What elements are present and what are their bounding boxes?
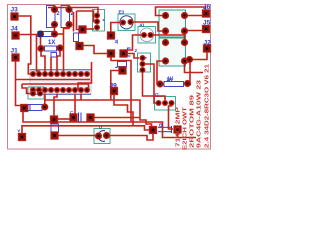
- board background: [0, 0, 216, 155]
- transistor Q5 outline: [138, 53, 151, 72]
- IC U1 pads row1: [30, 71, 89, 76]
- wire R2 bottom to X1: [54, 25, 56, 35]
- wire J2 to via: [190, 53, 207, 60]
- relay K2 outline: [159, 38, 186, 66]
- resistor R2 pads: [51, 6, 57, 12]
- LED D1 pads: [95, 133, 101, 139]
- wire C4 right to bus: [94, 117, 141, 119]
- wire U1 row2 to C4: [74, 94, 76, 116]
- svg-text:J6: J6: [203, 4, 211, 11]
- wire Q6 left down to C2: [126, 35, 144, 52]
- relay K2 pads: [162, 39, 168, 45]
- wire top bus to Q1: [48, 8, 98, 14]
- transistor Q1 pads: [94, 13, 99, 18]
- wire bus under U1 row (upper): [16, 79, 91, 81]
- wire C5 bottom down long vertical: [111, 57, 131, 122]
- svg-text:2.4 34D2-8RC3O V6 21: 2.4 34D2-8RC3O V6 21: [205, 64, 211, 148]
- svg-text:J9: J9: [110, 83, 118, 90]
- pad under D4: [76, 42, 83, 49]
- wire R3 bottom to U1 pin6: [64, 25, 70, 75]
- wire relay K1 to J6: [185, 15, 204, 17]
- wire net J3 to U1 pin1: [15, 16, 34, 74]
- wire Q5 collector down: [143, 70, 166, 100]
- wire U1 row2 pin down to bus right: [80, 94, 82, 101]
- wire Q1 row staircase to U1 row2: [78, 46, 108, 91]
- svg-text:714G 2MP: 714G 2MP: [176, 107, 182, 147]
- wire R2 top stub: [54, 8, 56, 10]
- transistor Q6 pads: [141, 32, 146, 37]
- connector J4 pad: [12, 32, 19, 39]
- crystal X1 pads: [37, 31, 43, 37]
- resistor R3 pads: [66, 6, 72, 12]
- svg-text:41: 41: [140, 23, 146, 28]
- capacitor C2 bracket: [128, 48, 131, 56]
- svg-text:1X: 1X: [48, 40, 55, 46]
- relay K1 pads: [162, 12, 168, 18]
- connector J8 pad (bottom left): [18, 133, 25, 140]
- wire Q5 mid to Q3: [143, 64, 159, 103]
- via near J2: [186, 56, 192, 62]
- relay K1 outline: [159, 10, 186, 37]
- connector J7 pad (bottom mid): [51, 132, 58, 139]
- resistor R1 pads: [157, 81, 163, 87]
- crystal X1 body: [43, 32, 52, 37]
- wire bottom bus y127: [22, 126, 149, 134]
- transistor Q1 outline: [93, 10, 105, 32]
- wire net J4 to U1 pin2: [16, 35, 40, 75]
- connector J1 pad: [12, 54, 19, 61]
- connector J7 body mark: [51, 124, 59, 132]
- transistor Q6 (TO-92 circle): [138, 27, 156, 44]
- capacitor C4 pads: [70, 114, 77, 121]
- wire main bus y100: [45, 100, 152, 128]
- wire U1 row2 pin down to bus: [44, 94, 46, 101]
- wire bus under U1 row (lower): [22, 84, 89, 94]
- capacitor C5 pads: [107, 32, 114, 39]
- small teal box lower-left of U1: [28, 87, 44, 99]
- wire X1 right pad junction: [55, 33, 64, 35]
- wire C1 left to U1 pin3: [41, 51, 45, 74]
- IC U1 body: [30, 70, 91, 95]
- svg-text:J1: J1: [11, 48, 19, 55]
- capacitor C1 body: [45, 46, 57, 51]
- svg-text:9AC4G-A10W 23: 9AC4G-A10W 23: [197, 80, 203, 148]
- wire C2 bottom left down to bus: [111, 71, 123, 101]
- wire vertical pair left of Q1: [74, 11, 81, 32]
- diode D3 pads: [21, 104, 28, 111]
- wire J9 net: [114, 94, 133, 126]
- svg-text:2ROTOM 89: 2ROTOM 89: [190, 95, 196, 148]
- capacitor C2 body: [118, 62, 127, 67]
- wire R3 top stub: [68, 8, 70, 10]
- connector J6 pad: [202, 10, 209, 17]
- wire Q4 left pad to C5: [111, 23, 123, 33]
- transistor Q4 (TO-92 circle): [118, 14, 135, 31]
- wire via to R1 right: [188, 60, 190, 84]
- teal box pads: [30, 91, 35, 96]
- wire pad to C4 left: [54, 118, 70, 120]
- wire C2 top to Q2 base: [124, 54, 140, 59]
- svg-text:J3: J3: [11, 7, 19, 14]
- connector J3 pad: [11, 13, 18, 20]
- diode D3 body: [28, 105, 42, 111]
- wire J7 pad to LED: [55, 135, 96, 137]
- LED D1 outline: [94, 129, 110, 144]
- svg-text:J2: J2: [204, 40, 212, 47]
- transistor Q4 pads: [120, 20, 125, 25]
- svg-text:E2ICH OWT: E2ICH OWT: [183, 106, 189, 150]
- pad mid bottom: [50, 116, 57, 123]
- wire U1 pin4 feed: [50, 57, 52, 74]
- capacitor C1 pads: [38, 45, 44, 51]
- svg-text:E3: E3: [119, 10, 125, 15]
- diode D2 body (bottom right): [158, 126, 172, 133]
- crystal X1 navy overlay: [38, 31, 44, 37]
- pad near Q1 emitter: [79, 26, 86, 33]
- IC U1 pads row2: [30, 87, 89, 92]
- connector J5 pad: [202, 25, 209, 32]
- resistor R1 body: [164, 82, 184, 87]
- wire C1 right to U1 pin5: [57, 51, 60, 75]
- wire relay K1 left to top rail: [156, 7, 206, 16]
- wire X1 left pad to C1: [40, 36, 42, 49]
- wire second top line to Q1 base: [77, 11, 95, 22]
- svg-text:3|: 3|: [115, 39, 119, 44]
- svg-text:J4: J4: [11, 26, 19, 33]
- resistor R2 body: [47, 6, 56, 28]
- svg-text:1R: 1R: [167, 77, 174, 82]
- connector J2 pad: [203, 45, 210, 52]
- transistor Q3 outline (bottom right): [155, 97, 176, 111]
- resistor R3 body: [61, 6, 70, 28]
- transistor Q3 pads: [156, 100, 161, 105]
- wire net J1 down to diode D3: [16, 58, 22, 106]
- diode D4 body (vertical, left of Q1): [74, 33, 79, 42]
- diode D2 pads: [149, 126, 156, 133]
- wire relay K1 to J5: [185, 30, 204, 32]
- wire relay K2 to R1: [157, 61, 166, 84]
- wire Q6 right to relay K2: [151, 35, 185, 39]
- wire pad to Q1 emitter: [83, 28, 94, 30]
- capacitor C2 tick: [115, 67, 117, 68]
- svg-text:J5: J5: [203, 20, 211, 27]
- wire bottom bus y122: [23, 111, 196, 138]
- wire relay K2 bottom right: [185, 62, 204, 73]
- wire Q3 right pad right: [169, 103, 174, 129]
- connector J9 pad: [110, 87, 117, 94]
- wire U1 row2 to pad: [54, 94, 57, 117]
- capacitor C2 pads: [120, 50, 127, 57]
- wire LED right to D2: [107, 133, 154, 140]
- wire Q4 right pad to relay K1: [131, 22, 163, 31]
- transistor Q5 pads: [140, 55, 145, 60]
- capacitor C4 body lines: [79, 113, 82, 122]
- capacitor C6 small body: [51, 53, 57, 58]
- board border frame: [8, 5, 211, 150]
